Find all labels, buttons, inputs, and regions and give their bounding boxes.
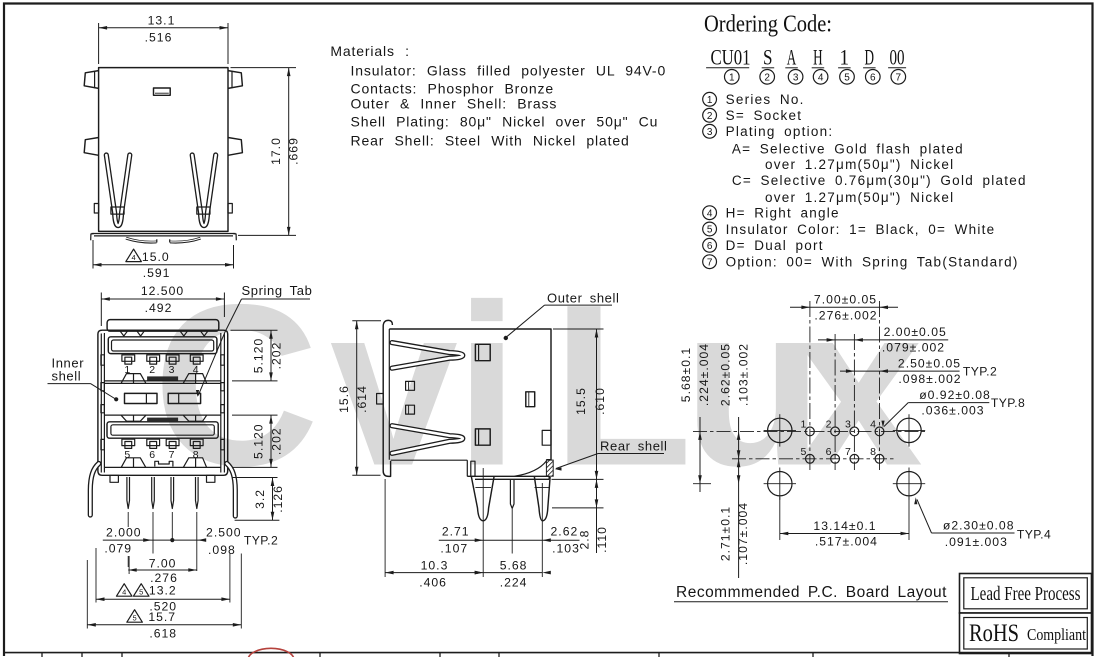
svg-text:Series No.: Series No. — [726, 92, 805, 107]
title block top line — [3, 652, 1093, 654]
dimension 12.500/.492 — [100, 293, 102, 327]
svg-text:13.14±0.1: 13.14±0.1 — [813, 519, 876, 533]
dimension 15.5/.610 — [553, 328, 604, 330]
svg-text:7.00±0.05: 7.00±0.05 — [814, 293, 877, 307]
pcb dimension 7.00±0.05/.276±.002 — [790, 306, 898, 308]
svg-text:Spring Tab: Spring Tab — [242, 283, 313, 298]
svg-text:Rear Shell: Steel With Nickel: Rear Shell: Steel With Nickel plated — [351, 133, 630, 149]
svg-text:15.6: 15.6 — [337, 385, 351, 413]
svg-text:1: 1 — [840, 45, 850, 70]
pcb leader ø0.92±0.08/.036±.003 TYP.8 — [908, 402, 989, 404]
svg-text:TYP.2: TYP.2 — [244, 533, 278, 547]
svg-text:6: 6 — [870, 72, 876, 83]
svg-text:12.500: 12.500 — [141, 284, 184, 298]
side view right mounting leg — [534, 477, 550, 521]
svg-text:Insulator: Glass filled polyes: Insulator: Glass filled polyester UL 94V… — [351, 62, 667, 78]
svg-text:S= Socket: S= Socket — [726, 108, 803, 123]
front view upper trapezoid row — [121, 374, 146, 384]
svg-text:2.62±0.05: 2.62±0.05 — [719, 343, 733, 406]
front view side wall tabs — [101, 355, 105, 365]
svg-text:2: 2 — [707, 111, 713, 122]
rear view lower right mounting tab — [228, 138, 242, 156]
front view pin centerlines — [127, 512, 129, 527]
svg-text:Outer & Inner Shell: Brass: Outer & Inner Shell: Brass — [351, 96, 558, 112]
dimension lower 5.120/.202 — [232, 414, 278, 416]
rear view upper right mounting tab — [228, 71, 242, 89]
rear view left contact hairpin spring — [106, 155, 130, 226]
svg-text:1: 1 — [800, 419, 806, 431]
rear view small left bottom tab — [94, 204, 98, 214]
svg-text:C= Selective 0.76μm(30μ") Gol: C= Selective 0.76μm(30μ") Gold plated — [732, 173, 1027, 188]
svg-text:8: 8 — [870, 446, 876, 458]
side view front plate left tab — [377, 394, 384, 405]
svg-text:2.71±0.1: 2.71±0.1 — [719, 506, 733, 561]
rear view lower left mounting tab — [84, 138, 98, 156]
svg-text:Lead Free Process: Lead Free Process — [971, 583, 1081, 605]
dimension 2.000/.079 and 2.500/.098 TYP.2 — [103, 539, 205, 541]
svg-text:ø0.92±0.08: ø0.92±0.08 — [919, 388, 991, 402]
front view top lip — [107, 320, 219, 332]
dimension 15.0/.591 with revision triangle 4 — [92, 240, 94, 269]
svg-text:13.1: 13.1 — [148, 13, 176, 27]
svg-text:.610: .610 — [593, 387, 607, 415]
svg-text:1: 1 — [707, 95, 713, 106]
pcb leader ø2.30±0.08/.091±.003 TYP.4 — [932, 532, 1015, 534]
svg-text:3.2: 3.2 — [253, 489, 267, 509]
dimension upper 5.120/.202 — [231, 329, 278, 331]
side view front plate — [383, 326, 390, 476]
svg-text:3: 3 — [169, 364, 175, 376]
side view upper hairpin spring — [392, 343, 463, 369]
svg-text:17.0: 17.0 — [269, 137, 283, 165]
svg-text:15.7: 15.7 — [148, 610, 176, 624]
svg-text:2.00±0.05: 2.00±0.05 — [884, 325, 947, 339]
svg-text:15.5: 15.5 — [574, 387, 588, 415]
svg-text:2: 2 — [764, 72, 770, 83]
svg-text:Ordering Code:: Ordering Code: — [704, 12, 832, 38]
svg-text:6: 6 — [826, 446, 832, 458]
svg-text:.492: .492 — [145, 301, 173, 315]
svg-text:.618: .618 — [149, 626, 177, 640]
side view left mounting leg — [471, 477, 494, 521]
svg-text:5.68±0.1: 5.68±0.1 — [679, 347, 693, 402]
svg-text:2.500: 2.500 — [206, 526, 242, 540]
dimension 13.1/.516 — [98, 23, 100, 64]
svg-text:.103±.002: .103±.002 — [737, 343, 751, 406]
pcb pin column centerlines — [809, 301, 811, 470]
svg-text:6: 6 — [707, 241, 713, 252]
svg-text:over 1.27μm(50μ") Nickel: over 1.27μm(50μ") Nickel — [765, 190, 954, 205]
front view lower trapezoid row — [121, 458, 146, 468]
lead free process box — [960, 574, 1092, 614]
red stamp arc — [248, 648, 294, 662]
pcb dimension 2.71±0.1/.107±.004 — [738, 459, 740, 578]
side view body outline — [389, 329, 551, 460]
ordering code list — [703, 92, 717, 106]
rear view right solder foot — [170, 238, 201, 242]
pcb dimension 5.68±0.1/.224±.004 — [699, 417, 701, 484]
pcb pin holes 1-4 — [806, 427, 815, 436]
svg-text:7: 7 — [896, 72, 902, 83]
side view lower hairpin spring — [392, 426, 463, 454]
svg-text:.126: .126 — [271, 485, 285, 513]
svg-text:5.120: 5.120 — [252, 423, 266, 459]
svg-text:Contacts: Phosphor Bronze: Contacts: Phosphor Bronze — [351, 81, 554, 97]
svg-text:7: 7 — [845, 446, 851, 458]
title block column ticks — [41, 653, 43, 657]
svg-text:RoHS: RoHS — [969, 620, 1019, 647]
svg-text:6: 6 — [149, 449, 155, 461]
side view leg centerlines — [482, 468, 484, 577]
dimension 15.7/.618 with triangle 5 — [86, 560, 88, 629]
svg-text:.591: .591 — [143, 266, 171, 280]
svg-text:Compliant: Compliant — [1027, 625, 1086, 644]
side view body bottom edge — [391, 459, 468, 461]
pcb row centerlines — [693, 430, 925, 432]
svg-text:5: 5 — [133, 613, 137, 622]
dimension 10.3/.406 — [384, 479, 386, 577]
rear view top center slot — [154, 88, 171, 95]
svg-text:5.68: 5.68 — [500, 559, 528, 573]
rear view right contact hairpin spring — [192, 155, 216, 226]
pcb dimension 2.00±0.05/.079±.002 — [818, 339, 948, 341]
front view inner shell right window (spring tab) — [168, 393, 200, 403]
svg-text:A: A — [787, 45, 797, 70]
svg-text:.091±.003: .091±.003 — [945, 535, 1008, 549]
svg-text:Plating option:: Plating option: — [726, 124, 834, 139]
dimension 2.8/.110 — [552, 507, 604, 509]
svg-text:3: 3 — [845, 419, 851, 431]
svg-text:.107±.004: .107±.004 — [736, 502, 750, 565]
front view upper tongue — [108, 337, 217, 354]
svg-text:5: 5 — [707, 225, 713, 236]
svg-text:00: 00 — [890, 45, 905, 70]
svg-text:.098±.002: .098±.002 — [898, 372, 961, 386]
side view upper square emboss — [475, 344, 490, 360]
svg-text:7: 7 — [169, 449, 175, 461]
front view lower contacts 5-8 — [122, 439, 135, 445]
dimension 7.00/.276 — [128, 556, 130, 574]
dimension 3.2/.126 — [232, 477, 278, 479]
front view solder pins — [127, 477, 130, 509]
rear view bottom flange — [91, 234, 94, 241]
side view right edge rect — [542, 430, 551, 445]
svg-text:.079±.002: .079±.002 — [882, 341, 945, 355]
svg-text:7.00: 7.00 — [149, 557, 177, 571]
svg-text:5.120: 5.120 — [252, 338, 266, 374]
svg-text:.406: .406 — [419, 576, 447, 590]
svg-text:.202: .202 — [270, 342, 284, 370]
front view lower tongue — [107, 422, 218, 438]
svg-text:7: 7 — [707, 257, 713, 268]
front view top latch notches — [120, 331, 127, 336]
svg-text:2.50±0.05: 2.50±0.05 — [898, 357, 961, 371]
svg-text:D= Dual port: D= Dual port — [726, 238, 824, 253]
svg-text:.107: .107 — [440, 542, 468, 556]
svg-text:4: 4 — [122, 587, 126, 596]
dimension 17.0/.669 — [231, 67, 297, 69]
pcb dimension 13.14±0.1/.517±.004 — [779, 497, 781, 540]
svg-text:H= Right angle: H= Right angle — [726, 206, 840, 221]
svg-text:.079: .079 — [104, 542, 132, 556]
svg-text:Insulator Color: 1= Black, 0=: Insulator Color: 1= Black, 0= White — [726, 222, 996, 237]
svg-text:10.3: 10.3 — [421, 559, 449, 573]
rear view small right bottom tab — [228, 204, 232, 214]
svg-text:Option: 00= With Spring Tab(S: Option: 00= With Spring Tab(Standard) — [726, 255, 1019, 270]
svg-text:over 1.27μm(50μ") Nickel: over 1.27μm(50μ") Nickel — [765, 157, 954, 172]
svg-text:Rear shell: Rear shell — [600, 439, 668, 454]
svg-text:.224: .224 — [500, 576, 528, 590]
svg-text:D: D — [865, 45, 875, 70]
front view left board leg — [90, 464, 99, 516]
svg-text:4: 4 — [707, 208, 713, 219]
front view inverted trapezoid row — [121, 415, 146, 421]
front view bottom feet tabs — [110, 475, 118, 482]
dimension 13.2/.520 with triangles 4,5 — [95, 548, 97, 603]
svg-text:15.0: 15.0 — [142, 250, 170, 264]
front view mid separator lines — [104, 380, 220, 382]
svg-text:.276±.002: .276±.002 — [814, 309, 877, 323]
svg-text:1: 1 — [729, 72, 735, 83]
svg-text:.110: .110 — [595, 526, 609, 553]
svg-text:5: 5 — [139, 587, 143, 596]
front view outer shell — [98, 330, 228, 475]
pcb big mounting holes — [768, 418, 792, 442]
svg-text:2.62: 2.62 — [551, 525, 579, 539]
svg-text:.103: .103 — [552, 542, 580, 556]
svg-text:CU01: CU01 — [710, 45, 750, 70]
svg-text:.224±.004: .224±.004 — [697, 343, 711, 406]
side view mounting plate — [467, 476, 549, 479]
svg-text:5: 5 — [844, 72, 850, 83]
svg-text:shell: shell — [52, 369, 82, 384]
side view thin solder pin — [510, 479, 514, 508]
pcb pin holes 5-8 — [806, 454, 815, 463]
svg-text:Shell Plating: 80μ" Nickel ove: Shell Plating: 80μ" Nickel over 50μ" Cu — [351, 114, 659, 130]
side view rear shell hatched section — [546, 460, 553, 476]
svg-text:4: 4 — [132, 253, 136, 262]
svg-text:Recommmended P.C. Board Layout: Recommmended P.C. Board Layout — [676, 584, 947, 601]
dimension 5.68/.224 — [483, 572, 542, 574]
side view small left rects — [406, 381, 415, 390]
rear view body outline — [99, 68, 228, 232]
dimension 15.6/.614 — [352, 320, 381, 322]
svg-text:ø2.30±0.08: ø2.30±0.08 — [943, 518, 1015, 532]
svg-text:A= Selective Gold flash plate: A= Selective Gold flash plated — [732, 142, 964, 157]
svg-text:.517±.004: .517±.004 — [815, 534, 878, 548]
side view center slot — [526, 392, 535, 407]
svg-text:TYP.2: TYP.2 — [963, 365, 997, 379]
svg-text:2: 2 — [826, 419, 832, 431]
svg-text:.669: .669 — [287, 137, 301, 165]
svg-text:2.000: 2.000 — [106, 526, 142, 540]
svg-text:1: 1 — [124, 364, 130, 376]
svg-text:3: 3 — [793, 72, 799, 83]
svg-text:3: 3 — [707, 127, 713, 138]
svg-text:.036±.003: .036±.003 — [921, 404, 984, 418]
rear view left solder foot — [126, 238, 157, 242]
rohs compliant box — [960, 613, 1092, 654]
svg-text:.614: .614 — [355, 385, 369, 413]
svg-text:TYP.8: TYP.8 — [991, 396, 1025, 410]
svg-text:H: H — [813, 45, 823, 70]
front view right board leg — [227, 464, 236, 517]
front view upper contacts 1-4 — [122, 355, 135, 361]
svg-text:S: S — [763, 45, 773, 70]
svg-text:Materials :: Materials : — [330, 43, 409, 59]
svg-text:4: 4 — [818, 72, 824, 83]
svg-text:.098: .098 — [208, 543, 236, 557]
svg-text:2.71: 2.71 — [442, 525, 470, 539]
front view bottom wall line — [104, 466, 220, 468]
svg-text:.202: .202 — [270, 427, 284, 455]
svg-text:.516: .516 — [145, 31, 173, 45]
side view rear shell bend arc — [515, 461, 547, 476]
dimension 2.71/.107 and 2.62/.103 — [439, 539, 580, 541]
svg-text:13.2: 13.2 — [149, 584, 177, 598]
svg-text:Outer shell: Outer shell — [547, 290, 619, 305]
pcb dimension 2.62±0.05/.103±.002 — [738, 417, 740, 459]
svg-text:2: 2 — [149, 364, 155, 376]
front view inner shell left window — [125, 393, 158, 403]
svg-text:TYP.4: TYP.4 — [1017, 528, 1051, 542]
svg-text:4: 4 — [870, 419, 876, 431]
side view lower square emboss — [475, 429, 490, 445]
svg-text:5: 5 — [800, 446, 806, 458]
rear view upper left mounting tab — [84, 71, 98, 89]
pcb dimension 2.50±0.05/.098±.002 TYP.2 — [840, 370, 960, 372]
